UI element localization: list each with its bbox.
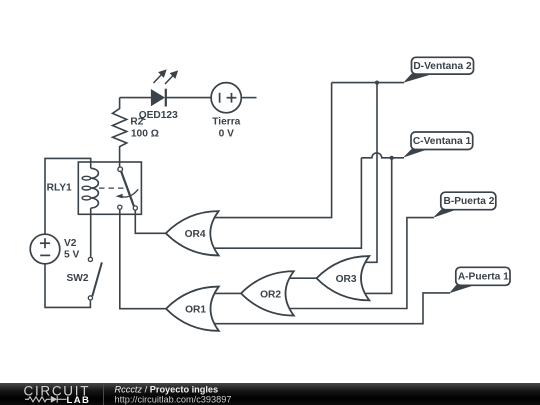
- svg-text:SW2: SW2: [67, 273, 89, 284]
- svg-text:Tierra: Tierra: [212, 117, 240, 128]
- svg-text:D-Ventana 2: D-Ventana 2: [413, 61, 472, 72]
- svg-text:V2: V2: [64, 238, 77, 249]
- svg-text:100 Ω: 100 Ω: [131, 129, 159, 140]
- svg-text:OR1: OR1: [185, 305, 206, 316]
- svg-text:RLY1: RLY1: [47, 183, 72, 194]
- svg-text:OR3: OR3: [336, 274, 357, 285]
- svg-text:0 V: 0 V: [219, 129, 234, 140]
- svg-text:B-Puerta 2: B-Puerta 2: [444, 196, 495, 207]
- svg-text:R2: R2: [130, 117, 143, 128]
- svg-text:A-Puerta 1: A-Puerta 1: [458, 271, 509, 282]
- svg-text:C-Ventana 1: C-Ventana 1: [413, 136, 472, 147]
- svg-text:http://circuitlab.com/c393897: http://circuitlab.com/c393897: [115, 394, 232, 404]
- svg-text:LAB: LAB: [67, 395, 91, 405]
- svg-text:Rccctz / Proyecto ingles: Rccctz / Proyecto ingles: [115, 384, 219, 394]
- svg-text:5 V: 5 V: [64, 250, 79, 261]
- svg-text:OR2: OR2: [260, 289, 281, 300]
- svg-text:QED123: QED123: [139, 110, 178, 121]
- svg-text:OR4: OR4: [185, 229, 206, 240]
